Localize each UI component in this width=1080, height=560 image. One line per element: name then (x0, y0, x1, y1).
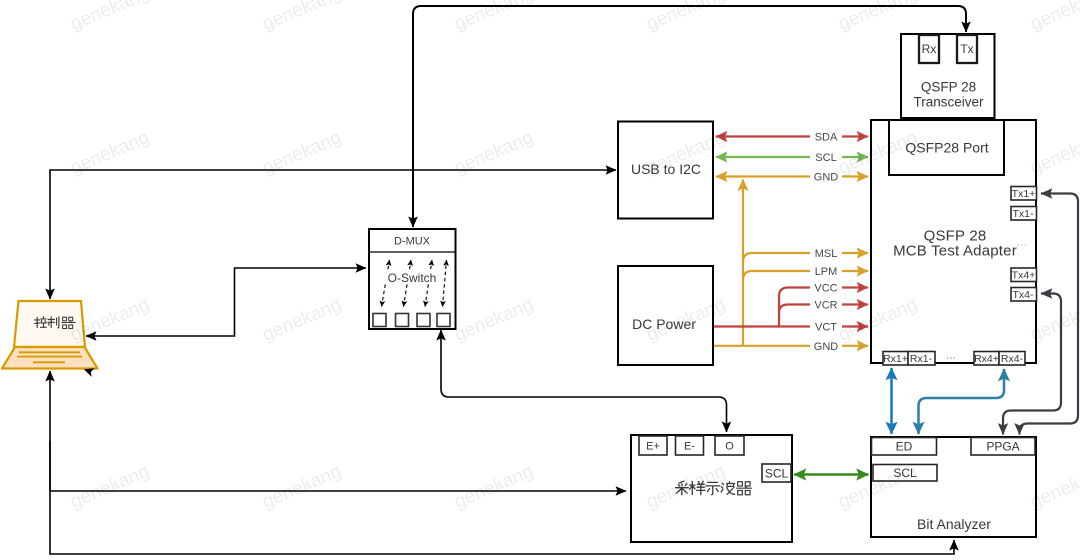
laptop label 控制器 (35, 317, 76, 329)
wire GND (716, 175, 868, 177)
port E+ (639, 436, 667, 455)
box QSFP 28 MCB Test Adapter (871, 120, 1036, 363)
box USB to I2C (618, 122, 713, 219)
port Rx1- (908, 352, 935, 366)
svg-text:Rx4+: Rx4+ (974, 353, 999, 365)
port Rx (919, 35, 939, 63)
svg-text:O-Switch: O-Switch (388, 271, 437, 285)
svg-text:genekang: genekang (259, 0, 344, 35)
svg-text:SCL: SCL (815, 152, 836, 164)
svg-text:Rx1+: Rx1+ (883, 353, 908, 365)
svg-text:VCC: VCC (814, 283, 837, 295)
svg-text:genekang: genekang (67, 0, 152, 35)
wire SCL (716, 156, 868, 158)
D-MUX dashed links (382, 260, 447, 307)
svg-text:Bit Analyzer: Bit Analyzer (917, 516, 991, 532)
wire labels (810, 131, 842, 353)
wire MSL (743, 253, 868, 262)
svg-text:E+: E+ (646, 441, 660, 453)
port E- (676, 436, 704, 455)
svg-text:genekang: genekang (451, 294, 536, 346)
svg-text:E-: E- (684, 441, 695, 453)
oscilloscope label 采样示波器 (676, 481, 752, 495)
port Tx4- (1011, 288, 1037, 302)
svg-text:VCR: VCR (814, 300, 837, 312)
svg-text:genekang: genekang (67, 461, 152, 513)
port SCL scope (762, 464, 791, 482)
svg-text:GND: GND (814, 172, 839, 184)
wire SCL scope to SCL analyzer (green) (794, 473, 869, 476)
box sampling oscilloscope (631, 435, 792, 542)
svg-text:Tx1-: Tx1- (1013, 208, 1035, 220)
wire GND2 (714, 345, 868, 347)
svg-text:O: O (725, 441, 734, 453)
O-Switch label (383, 271, 441, 285)
wire Rx4+ to ED (blue S) (919, 369, 1005, 434)
svg-text:genekang: genekang (259, 294, 344, 346)
port Rx4+ (974, 352, 999, 366)
svg-text:genekang: genekang (451, 127, 536, 179)
svg-text:Rx: Rx (922, 42, 937, 56)
wire VCT (714, 325, 868, 327)
svg-text:⋯: ⋯ (1017, 240, 1027, 251)
wire Tx1+ to PPGA (dark) (1020, 194, 1079, 435)
box D-MUX (369, 229, 456, 329)
wire VCR (779, 305, 868, 314)
svg-text:Tx4-: Tx4- (1013, 289, 1035, 301)
svg-text:genekang: genekang (67, 127, 152, 179)
wire VCC (779, 288, 868, 327)
wire laptop to Bit Analyzer (bottom) (50, 371, 954, 554)
svg-text:genekang: genekang (451, 461, 536, 513)
wire LPM (743, 271, 868, 280)
svg-text:PPGA: PPGA (986, 440, 1019, 454)
box QSFP28 Port (889, 120, 1004, 175)
svg-text:Tx1+: Tx1+ (1012, 188, 1036, 200)
svg-text:VCT: VCT (815, 322, 837, 334)
wire Tx4- to PPGA (dark) (1003, 294, 1061, 435)
port Rx1+ (883, 352, 908, 366)
svg-text:D-MUX: D-MUX (394, 236, 431, 248)
port ED (872, 438, 937, 456)
port Tx4+ (1011, 268, 1037, 282)
wire laptop to USB-to-I2C (50, 170, 616, 299)
svg-text:QSFP 28: QSFP 28 (921, 80, 976, 95)
arrowhead into laptop bottom-right (84, 368, 95, 377)
svg-text:SDA: SDA (815, 132, 838, 144)
port Rx4- (999, 352, 1025, 366)
box DC Power (618, 266, 713, 365)
port Tx (957, 35, 977, 63)
wire laptop to D-MUX (86, 268, 366, 336)
box Bit Analyzer (871, 437, 1036, 537)
svg-text:LPM: LPM (815, 266, 838, 278)
svg-text:SCL: SCL (765, 467, 789, 481)
svg-text:Tx: Tx (960, 42, 973, 56)
svg-text:genekang: genekang (1027, 0, 1080, 35)
svg-text:genekang: genekang (259, 127, 344, 179)
svg-text:Rx4-: Rx4- (1001, 353, 1024, 365)
laptop controller (2, 301, 98, 369)
svg-text:MSL: MSL (815, 248, 838, 260)
svg-text:genekang: genekang (259, 461, 344, 513)
svg-text:ED: ED (896, 440, 913, 454)
port Tx1+ (1011, 187, 1037, 201)
wire Rx1+ to ED (blue) (890, 368, 893, 434)
wire SDA (716, 135, 868, 137)
svg-text:Transceiver: Transceiver (913, 95, 984, 110)
wire D-MUX to QSFP28 transceiver (top) (413, 6, 966, 227)
wire GND vertical riser (742, 180, 744, 346)
svg-text:⋯: ⋯ (946, 353, 956, 364)
svg-text:GND: GND (814, 341, 839, 353)
port Tx1- (1011, 207, 1037, 221)
svg-text:Rx1-: Rx1- (910, 353, 933, 365)
svg-text:Tx4+: Tx4+ (1012, 270, 1036, 282)
svg-text:MCB Test Adapter: MCB Test Adapter (893, 243, 1017, 260)
port O (715, 436, 744, 455)
wire D-MUX to oscilloscope O port (441, 330, 727, 432)
wire laptop to oscilloscope (50, 441, 626, 491)
D-MUX switch squares (373, 314, 450, 327)
box QSFP 28 Transceiver (901, 34, 995, 118)
port PPGA (971, 438, 1035, 456)
port SCL analyzer (873, 465, 937, 482)
